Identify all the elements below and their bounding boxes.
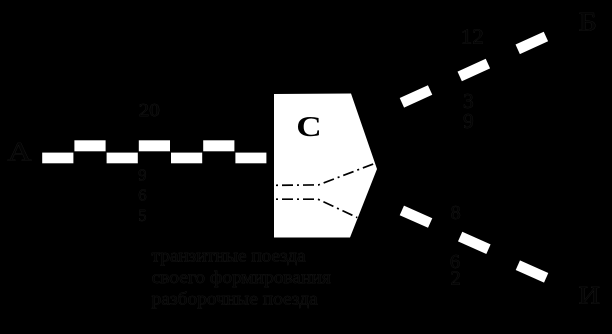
svg-text:И: И <box>579 282 601 309</box>
svg-text:6: 6 <box>138 186 146 205</box>
svg-text:9: 9 <box>138 165 146 184</box>
svg-text:5: 5 <box>138 206 146 225</box>
svg-text:20: 20 <box>139 100 160 120</box>
svg-text:транзитные поезда: транзитные поезда <box>152 246 306 266</box>
svg-text:разборочные поезда: разборочные поезда <box>152 289 318 309</box>
svg-text:C: C <box>296 110 321 142</box>
svg-text:9: 9 <box>463 109 474 133</box>
svg-text:своего формирования: своего формирования <box>152 267 331 287</box>
svg-text:2: 2 <box>451 268 461 290</box>
svg-text:Б: Б <box>579 8 598 37</box>
svg-text:8: 8 <box>451 202 461 224</box>
svg-text:12: 12 <box>461 24 484 48</box>
svg-text:А: А <box>8 136 32 166</box>
